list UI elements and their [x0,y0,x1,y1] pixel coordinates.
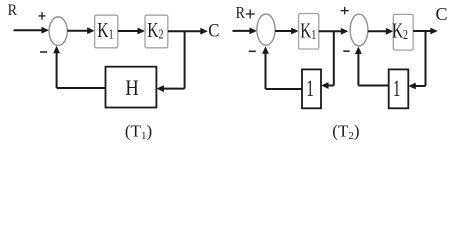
svg-text:R: R [8,2,18,19]
svg-text:(T2): (T2) [332,122,359,143]
svg-text:(T1): (T1) [125,122,152,143]
svg-text:H: H [125,77,139,101]
svg-text:C: C [436,4,448,24]
svg-text:1: 1 [393,77,401,102]
svg-text:R: R [236,4,246,23]
svg-text:1: 1 [306,77,314,102]
svg-text:C: C [208,20,219,41]
